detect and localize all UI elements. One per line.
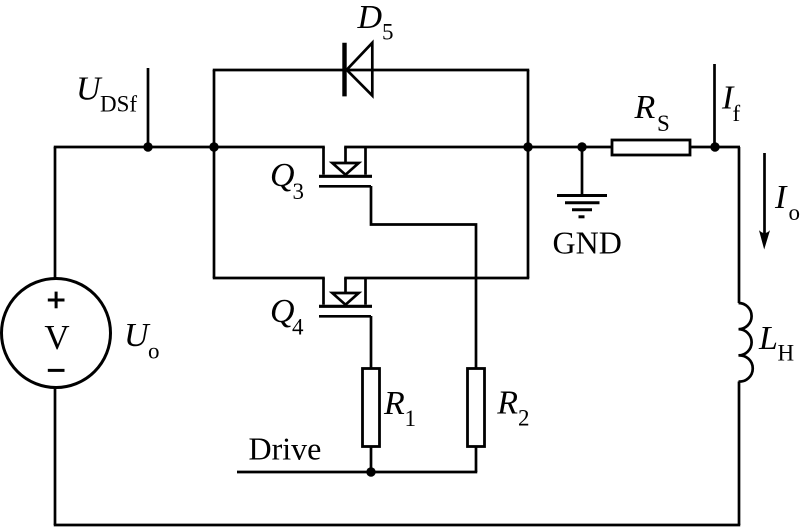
svg-text:V: V [44,318,69,357]
Q4 drain stub right [364,278,367,305]
junction dot left loop node [209,142,218,151]
wire main rail right segment [344,146,740,149]
ground symbol [557,196,607,217]
svg-text:GND: GND [553,225,622,261]
svg-text:f: f [733,101,741,126]
wire Q4 loop line left segment [213,277,325,280]
svg-text:5: 5 [382,20,394,45]
wire right loop vertical x=528 [527,70,530,278]
svg-text:DSf: DSf [100,92,137,117]
Q4 channel bar [319,305,372,308]
svg-text:3: 3 [293,179,305,204]
svg-text:R: R [496,385,518,422]
wire I_f terminal stub [713,64,716,147]
svg-text:U: U [124,317,151,354]
wire bottom rail [54,524,741,527]
voltage source plus sign [48,292,65,309]
inductor LH [739,303,753,382]
Q4 arrow stem [344,278,347,293]
wire main rail left segment [54,146,325,149]
transistor Q4 [319,278,372,316]
resistor R2 [468,369,485,447]
Q4 body arrow [332,293,358,305]
svg-text:R: R [634,89,656,126]
Q3 gate bar [319,185,371,188]
Q3 source stub left [322,147,325,175]
wire right vertical lower [738,382,741,526]
svg-text:D: D [357,0,383,36]
Q4 gate bar [319,315,371,318]
junction dot UDSf node [143,142,152,151]
Q4 source stub left [322,278,325,305]
diode D5 cathode bar [342,43,346,97]
svg-text:U: U [76,71,103,108]
wire left vertical branch [54,147,57,525]
wire Q4 gate run to R1 [370,316,373,472]
svg-text:1: 1 [405,406,417,431]
arrow Io [759,153,770,250]
wire GND stem [581,147,584,195]
diode D5 triangle [347,43,373,96]
svg-text:H: H [778,341,795,366]
resistor R1 [363,369,380,447]
voltage source V circle [2,279,111,388]
Q3 drain stub right [364,147,367,175]
Q3 arrow stem [344,147,347,163]
svg-text:Q: Q [270,293,295,330]
svg-text:4: 4 [292,315,304,340]
junction dot drive node [366,467,375,476]
resistor RS [612,140,690,155]
junction dot right loop node [523,142,532,151]
wire Q4 loop line right segment [344,277,529,280]
svg-text:L: L [758,320,778,357]
wire diode top rail [213,69,530,72]
svg-text:I: I [774,179,788,216]
svg-text:o: o [789,200,800,225]
svg-text:Q: Q [270,157,295,194]
wire right vertical upper [738,147,741,303]
svg-text:S: S [657,111,670,136]
wire left loop vertical x=214 [213,70,216,278]
diode D5 [345,43,373,97]
svg-text:Drive: Drive [249,431,322,467]
wire Q3 gate run to R2 [371,186,476,472]
transistor Q3 [319,147,372,186]
svg-text:R: R [383,385,405,422]
wire drive line [237,471,477,474]
Q3 channel bar [319,175,372,178]
junction dot GND node [577,142,586,151]
Q3 body arrow [332,163,358,175]
svg-text:o: o [148,339,160,364]
junction dot If node [710,142,719,151]
svg-text:2: 2 [518,406,530,431]
voltage source minus sign [48,369,65,372]
wire U_DSf terminal stub [147,68,150,147]
